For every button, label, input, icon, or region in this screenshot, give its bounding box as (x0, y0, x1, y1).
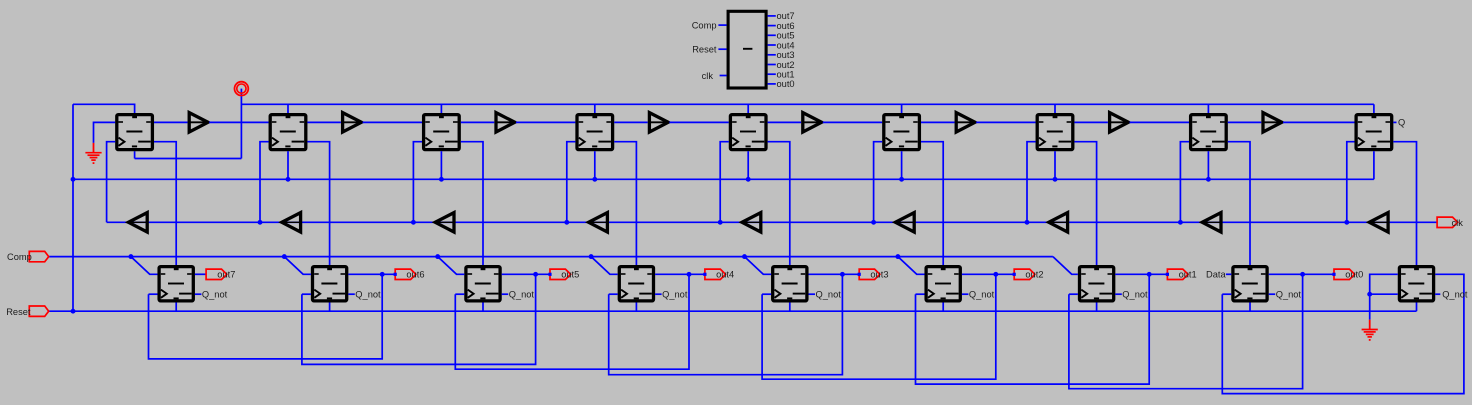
flip-flop DFF1 (row3 stage 1) (159, 267, 193, 301)
flip-flop DFF4 (row3 stage 4) (619, 267, 653, 301)
wire U3 top pin from set rail (440, 104, 442, 113)
junction loop 6 on DFF7 Q wire (1147, 272, 1152, 277)
port clk (1437, 217, 1458, 227)
junction loop 4 on DFF5 Q wire (840, 272, 845, 277)
wire U2 clock tap (260, 142, 269, 223)
wire Comp bus (y=257) (48, 256, 1053, 258)
svg-text:clk: clk (1452, 218, 1464, 228)
buffer T3 (row2, left-pointing) (435, 213, 454, 232)
junction clock tap stage 2 on row2 chain (258, 220, 263, 225)
wire DFF3 Q_not stub (502, 293, 509, 295)
junction U7 bottom on reset rail (1053, 177, 1058, 182)
wire U7 top pin from set rail (1054, 104, 1056, 113)
port out4 (705, 269, 726, 279)
flip-flop U4 (row1 stage 4) (577, 115, 613, 150)
svg-text:Comp: Comp (692, 20, 717, 30)
wire DFF7 clock from loop 7 (1069, 293, 1078, 295)
buffer T1 (row2, left-pointing) (128, 213, 147, 232)
port out6 (395, 269, 416, 279)
wire U2 Q to buffer B2 (307, 121, 341, 123)
wire DFF4 Q to port out4 (655, 273, 705, 275)
svg-text:out2: out2 (777, 60, 795, 70)
wire U8 top pin from set rail (1207, 104, 1209, 113)
flip-flop DFF2 (row3 stage 2) (313, 267, 347, 301)
svg-text:Q_not: Q_not (662, 290, 688, 300)
wire DFF8 bottom pin to Reset bus (1249, 303, 1251, 312)
wire DFF1 bottom pin to Reset bus (175, 303, 177, 312)
wire DFF8 Q_not stub (1269, 293, 1276, 295)
wire U5 Q to buffer B5 (768, 121, 802, 123)
wire buffer B8 output to U9 D (1283, 121, 1355, 123)
wire DFF1 Q_not stub (195, 293, 202, 295)
junction U3 bottom on reset rail (439, 177, 444, 182)
flip-flop DFF9 (row3 stage 9) (1399, 267, 1433, 301)
junction loop 2 on DFF3 Q wire (533, 272, 538, 277)
wire U5 Q_not to DFF5 top (768, 142, 790, 265)
wire U6 clock tap (874, 142, 883, 223)
junction clock tap stage 6 on row2 chain (871, 220, 876, 225)
wire loop 5 (clock feedback) (762, 274, 996, 379)
wire buffer B3 output to U4 D (516, 121, 575, 123)
wire U3 Q to buffer B3 (461, 121, 495, 123)
svg-text:out1: out1 (1179, 270, 1197, 280)
junction Comp bus stage 1 (128, 254, 133, 259)
wire Comp to DFF4 D (diagonal) (591, 257, 618, 275)
port Reset (29, 306, 48, 316)
wire DFF8 clock from loop 8 (1222, 293, 1231, 295)
wire global set node vertical x=241 (240, 89, 242, 159)
wire DFF6 bottom pin to Reset bus (942, 303, 944, 312)
svg-text:out6: out6 (406, 270, 424, 280)
wire U4 Q to buffer B4 (614, 121, 648, 123)
wire DFF4 Q_not stub (655, 293, 662, 295)
wire buffer B7 output to U8 D (1130, 121, 1189, 123)
svg-text:out2: out2 (1025, 270, 1043, 280)
svg-text:out7: out7 (777, 11, 795, 21)
wire buffer B2 output to U3 D (363, 121, 422, 123)
port out0 (1334, 269, 1355, 279)
wire DFF5 clock from loop 5 (762, 293, 771, 295)
wire U5 bottom pin to reset rail (747, 151, 749, 179)
wire loop 3 (clock feedback) (455, 274, 689, 369)
wire U3 bottom pin to reset rail (440, 151, 442, 179)
svg-text:out6: out6 (777, 21, 795, 31)
junction Comp bus stage 4 (589, 254, 594, 259)
U0 pin out2 (768, 64, 776, 66)
U0 pin out1 (768, 73, 776, 75)
buffer T5 (row2, left-pointing) (742, 213, 761, 232)
junction DFF9 clk/gnd node (1367, 292, 1372, 297)
buffer B1 (189, 113, 208, 132)
wire loop 2 (clock feedback) (302, 274, 536, 364)
port out7 (206, 269, 227, 279)
wire U1 Q_not to DFF1 top (154, 142, 176, 265)
junction U2 bottom on reset rail (286, 177, 291, 182)
wire DFF9 clock from node (1370, 293, 1398, 295)
buffer B5 (803, 113, 822, 132)
wire set rail (top, y=104) (241, 103, 1374, 105)
flip-flop U6 (row1 stage 6) (884, 115, 920, 150)
U0 pin out3 (768, 54, 776, 56)
port out5 (550, 269, 571, 279)
wire DFF3 bottom pin to Reset bus (482, 303, 484, 312)
port out2 (1014, 269, 1035, 279)
wire DFF8 D stub (net Data) (1226, 273, 1231, 275)
U0 pin Reset (718, 48, 726, 50)
junction U4 bottom on reset rail (592, 177, 597, 182)
wire U8 clock tap (1180, 142, 1189, 223)
buffer T4 (row2, left-pointing) (589, 213, 608, 232)
wire Comp to DFF6 D (diagonal) (898, 257, 925, 275)
wire DFF3 Q to port out5 (502, 273, 550, 275)
flip-flop DFF3 (row3 stage 3) (466, 267, 500, 301)
U0 pin Comp (718, 24, 726, 26)
wire DFF2 bottom pin to Reset bus (329, 303, 331, 312)
wire DFF8 Q to port out0 (1269, 273, 1334, 275)
wire Comp to DFF2 D (diagonal) (284, 257, 311, 275)
wire U1 Q to buffer B1 (154, 121, 188, 123)
wire DFF1 clock from loop 1 (149, 293, 158, 295)
wire U3 clock tap (413, 142, 422, 223)
junction clock tap stage 9 on row2 chain (1344, 220, 1349, 225)
wire DFF9 D to clk/gnd node (1370, 274, 1398, 294)
flip-flop U1 (row1 stage 1) (117, 115, 153, 150)
wire row2 clock chain (y=222) (107, 221, 1438, 223)
wire U9 clock tap (1347, 142, 1355, 223)
svg-text:Q_not: Q_not (1276, 290, 1302, 300)
wire buffer B4 output to U5 D (669, 121, 728, 123)
wire DFF1 Q to port out7 (195, 273, 206, 275)
wire DFF2 Q to port out6 (348, 273, 395, 275)
wire U6 bottom pin to reset rail (901, 151, 903, 179)
wire U7 Q_not to DFF7 top (1074, 142, 1096, 265)
wire DFF9 Q_not stub (1435, 293, 1440, 295)
svg-text:out0: out0 (1345, 270, 1363, 280)
svg-text:Q_not: Q_not (202, 290, 228, 300)
wire DFF6 clock from loop 6 (916, 293, 925, 295)
wire loop 7 (clock feedback) (1069, 274, 1303, 388)
wire buffer B1 output to U2 D (209, 121, 268, 123)
svg-text:out4: out4 (716, 270, 734, 280)
wire FF1 top pin to x=73 (73, 104, 135, 113)
wire U6 Q_not to DFF6 top (921, 142, 943, 265)
port pin marker out0 (1332, 273, 1335, 276)
wire U4 Q_not to DFF4 top (614, 142, 636, 265)
svg-text:Q_not: Q_not (509, 290, 535, 300)
wire loop 6 (clock feedback) (916, 274, 1150, 384)
U0 pin out6 (768, 25, 776, 27)
wire loop 1 (clock feedback) (149, 274, 383, 359)
junction Comp bus stage 6 (895, 254, 900, 259)
U0 pin out4 (768, 44, 776, 46)
port pin marker out4 (703, 273, 706, 276)
buffer B3 (496, 113, 515, 132)
buffer T9 (row2, left-pointing) (1369, 213, 1388, 232)
wire FF1 D-chain horizontal y=158.5 (135, 158, 242, 160)
svg-text:out3: out3 (870, 270, 888, 280)
junction Comp bus stage 5 (742, 254, 747, 259)
wire U7 clock tap (1027, 142, 1036, 223)
svg-text:clk: clk (702, 71, 714, 81)
svg-text:Q_not: Q_not (1442, 290, 1468, 300)
flip-flop DFF6 (row3 stage 6) (926, 267, 960, 301)
flip-flop U9 (row1 stage 9) (1356, 115, 1392, 150)
junction clock tap stage 5 on row2 chain (718, 220, 723, 225)
wire DFF3 clock from loop 3 (455, 293, 464, 295)
svg-text:Q_not: Q_not (1122, 290, 1148, 300)
buffer T6 (row2, left-pointing) (895, 213, 914, 232)
ground (stage 9) (1362, 320, 1378, 341)
wire DFF5 Q to port out3 (809, 273, 860, 275)
wire U5 top pin from set rail (747, 104, 749, 113)
junction U8 bottom on reset rail (1206, 177, 1211, 182)
wire DFF9 bottom pin to Reset bus end (1416, 303, 1418, 312)
svg-text:out0: out0 (777, 79, 795, 89)
svg-text:Q_not: Q_not (969, 290, 995, 300)
junction x=73 on Reset bus (71, 309, 76, 314)
wire loop 4 (clock feedback) (609, 274, 843, 374)
junction Comp bus stage 2 (282, 254, 287, 259)
svg-text:Reset: Reset (6, 307, 31, 317)
svg-text:out5: out5 (561, 270, 579, 280)
wire DFF5 bottom pin to Reset bus (789, 303, 791, 312)
flip-flop U2 (row1 stage 2) (270, 115, 306, 150)
wire U7 Q to buffer B7 (1074, 121, 1108, 123)
junction clock tap stage 8 on row2 chain (1178, 220, 1183, 225)
buffer B6 (956, 113, 975, 132)
wire DFF4 bottom pin to Reset bus (635, 303, 637, 312)
junction U5 bottom on reset rail (746, 177, 751, 182)
wire DFF2 Q_not stub (348, 293, 355, 295)
svg-text:Data: Data (1206, 270, 1226, 280)
wire U9 Q stub (1393, 121, 1396, 123)
port pin marker out5 (548, 273, 551, 276)
wire reset rail (y=179) (73, 178, 1374, 180)
junction Comp bus stage 3 (435, 254, 440, 259)
wire U6 top pin from set rail (901, 104, 903, 113)
wire DFF7 Q_not stub (1115, 293, 1122, 295)
junction loop 1 on DFF2 Q wire (380, 272, 385, 277)
flip-flop U3 (row1 stage 3) (424, 115, 460, 150)
wire Reset bus (y=311) (48, 310, 1416, 312)
wire DFF9 node to ground (1369, 294, 1371, 320)
wire U4 bottom pin to reset rail (594, 151, 596, 179)
wire loop 8 (clock feedback) (1222, 274, 1464, 393)
junction U6 bottom on reset rail (899, 177, 904, 182)
wire U8 Q to buffer B8 (1228, 121, 1262, 123)
ground (stage 1) (85, 143, 101, 164)
flip-flop DFF8 (row3 stage 8) (1233, 267, 1267, 301)
flip-flop U7 (row1 stage 7) (1037, 115, 1073, 150)
port pin marker out6 (394, 273, 397, 276)
wire U4 top pin from set rail (594, 104, 596, 113)
wire U9 top pin from set rail (1373, 104, 1375, 113)
svg-text:out1: out1 (777, 70, 795, 80)
junction clock tap stage 4 on row2 chain (564, 220, 569, 225)
port Comp (29, 251, 48, 261)
svg-text:Reset: Reset (692, 45, 717, 55)
buffer B7 (1110, 113, 1129, 132)
buffer T7 (row2, left-pointing) (1049, 213, 1068, 232)
wire U2 top pin from set rail (287, 104, 289, 113)
wire DFF2 clock from loop 2 (302, 293, 311, 295)
flip-flop U5 (row1 stage 5) (730, 115, 766, 150)
wire FF1 D input to ground (94, 122, 116, 142)
flip-flop U8 (row1 stage 8) (1191, 115, 1227, 150)
buffer T2 (row2, left-pointing) (282, 213, 301, 232)
wire U6 Q to buffer B6 (921, 121, 955, 123)
buffer B4 (649, 113, 668, 132)
flip-flop DFF5 (row3 stage 5) (773, 267, 807, 301)
wire U7 bottom pin to reset rail (1054, 151, 1056, 179)
buffer T8 (row2, left-pointing) (1202, 213, 1221, 232)
port out3 (859, 269, 880, 279)
U0 pin out5 (768, 34, 776, 36)
wire DFF7 bottom pin to Reset bus (1096, 303, 1098, 312)
junction loop 5 on DFF6 Q wire (993, 272, 998, 277)
wire FF1 bottom pin drop (134, 151, 136, 158)
U0 pin out7 (768, 15, 776, 17)
wire buffer B6 output to U7 D (976, 121, 1035, 123)
wire Comp to DFF7 D (diagonal) (1053, 257, 1078, 275)
buffer B2 (343, 113, 362, 132)
junction clock tap stage 3 on row2 chain (411, 220, 416, 225)
wire U4 clock tap (567, 142, 576, 223)
wire buffer B5 output to U6 D (823, 121, 882, 123)
junction clock tap stage 7 on row2 chain (1025, 220, 1030, 225)
flip-flop DFF7 (row3 stage 7) (1080, 267, 1114, 301)
wire Comp to DFF3 D (diagonal) (438, 257, 465, 275)
svg-text:Comp: Comp (7, 252, 32, 262)
global node symbol (double circle) (235, 82, 249, 96)
wire U1 clock tap (107, 142, 116, 223)
wire Comp to DFF5 D (diagonal) (745, 257, 772, 275)
U0 pin clk (720, 75, 727, 77)
wire DFF6 Q_not stub (962, 293, 969, 295)
port pin marker out2 (1013, 273, 1016, 276)
wire U9 bottom pin to reset rail (1373, 151, 1375, 179)
wire DFF7 Q to port out1 (1115, 273, 1167, 275)
wire U3 Q_not to DFF3 top (461, 142, 483, 265)
wire U8 bottom pin to reset rail (1207, 151, 1209, 179)
wire Comp to DFF1 D (diagonal) (131, 257, 158, 275)
U0 pin out0 (768, 83, 776, 85)
wire U2 Q_not to DFF2 top (307, 142, 329, 265)
port out1 (1167, 269, 1188, 279)
junction loop 7 on DFF8 Q wire (1300, 272, 1305, 277)
svg-text:Q_not: Q_not (816, 290, 842, 300)
wire U9 Q_not to DFF9 top (1393, 142, 1416, 265)
wire U8 Q_not to DFF8 top (1228, 142, 1250, 265)
wire DFF4 clock from loop 4 (609, 293, 618, 295)
svg-text:out5: out5 (777, 31, 795, 41)
junction loop 3 on DFF4 Q wire (687, 272, 692, 277)
wire DFF5 Q_not stub (809, 293, 816, 295)
wire U2 bottom pin to reset rail (287, 151, 289, 179)
svg-text:Q_not: Q_not (355, 290, 381, 300)
wire DFF6 Q to port out2 (962, 273, 1014, 275)
svg-text:Q: Q (1398, 118, 1405, 128)
port pin marker out1 (1166, 273, 1169, 276)
svg-text:out7: out7 (217, 270, 235, 280)
svg-text:out4: out4 (777, 40, 795, 50)
buffer B8 (1263, 113, 1282, 132)
SAR logic block symbol U0 (728, 11, 766, 88)
svg-text:out3: out3 (777, 50, 795, 60)
port pin marker out3 (858, 273, 861, 276)
wire left vertical x=73 (Reset to FF1 top) (72, 104, 74, 311)
junction x=73 on reset rail (71, 177, 76, 182)
wire U5 clock tap (720, 142, 729, 223)
